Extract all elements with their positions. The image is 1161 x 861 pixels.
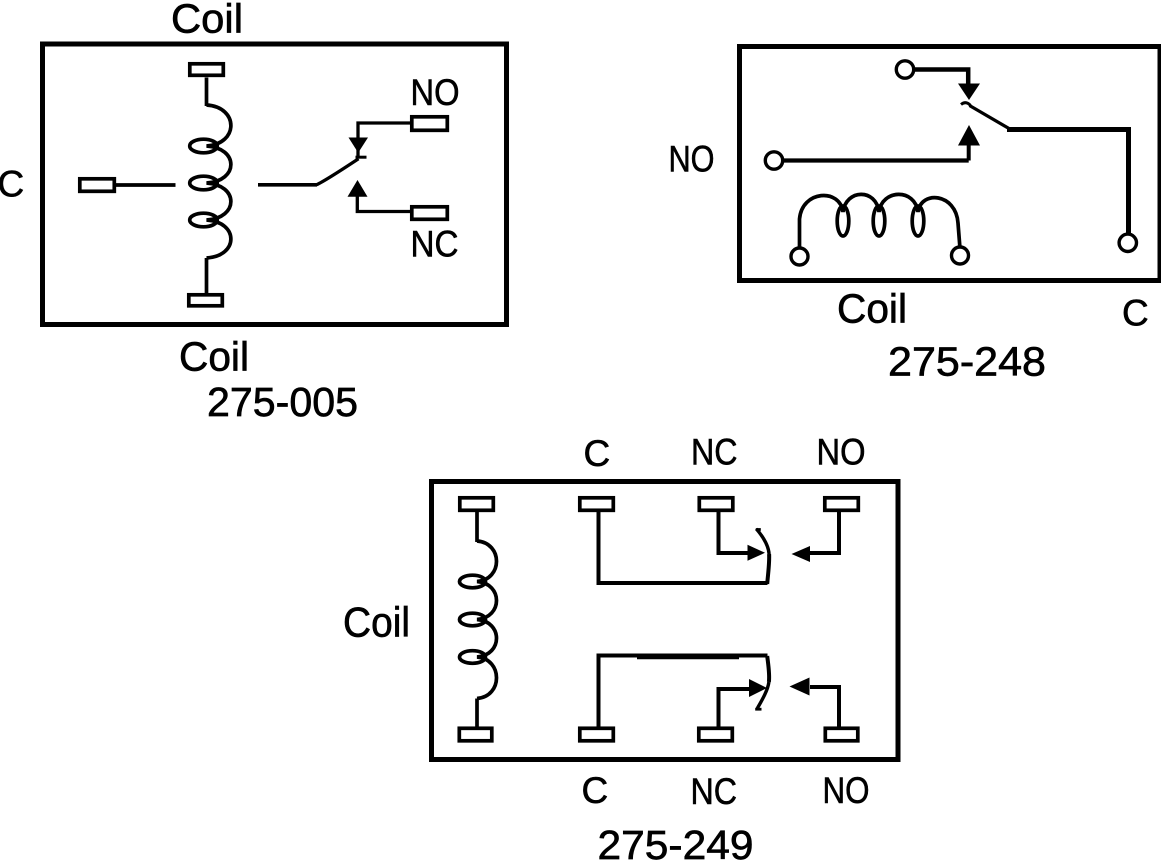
- terminal C top: [580, 498, 614, 511]
- svg-text:C: C: [0, 164, 24, 205]
- pin circle coil left: [791, 248, 808, 265]
- blade hook: [961, 103, 971, 106]
- svg-text:NC: NC: [691, 771, 738, 812]
- relay body box 275-005: [43, 44, 507, 325]
- pin circle coil right: [952, 247, 969, 264]
- NC contact arrow: [348, 180, 368, 197]
- NC contact arrow top (right): [748, 545, 766, 561]
- svg-text:NC: NC: [411, 224, 459, 265]
- coil crossover loop 2: [460, 613, 486, 626]
- coil L1 winding: [800, 194, 960, 247]
- svg-text:NO: NO: [823, 770, 870, 811]
- NO contact arrow bottom (left): [790, 678, 810, 696]
- wire NC contact: [357, 197, 411, 212]
- svg-text:NC: NC: [691, 432, 738, 473]
- svg-text:Coil: Coil: [171, 0, 243, 42]
- NO contact arrow: [349, 138, 369, 153]
- wire common left segment: [114, 183, 176, 187]
- svg-text:C: C: [582, 770, 609, 811]
- coil L1 winding: [477, 541, 497, 699]
- terminal C common: [80, 179, 115, 192]
- switch blade top pole: [756, 529, 769, 554]
- relay 275-249: [343, 432, 898, 861]
- blade tail tick bottom pole: [755, 708, 761, 711]
- relay 275-248: [669, 47, 1161, 385]
- terminal coil top: [190, 64, 224, 76]
- pin circle NC (top): [896, 61, 913, 78]
- wire blade to C pin: [1007, 130, 1129, 234]
- terminal NO: [412, 117, 448, 131]
- wire C bottom doubled segment: [637, 655, 739, 660]
- terminal coil top: [460, 498, 494, 511]
- pin circle C: [1119, 234, 1136, 251]
- blade tail tick top pole: [756, 528, 761, 531]
- svg-text:C: C: [1122, 293, 1149, 334]
- coil crossover loop 1: [837, 206, 849, 236]
- svg-text:275-249: 275-249: [598, 822, 754, 861]
- svg-text:275-248: 275-248: [888, 339, 1046, 385]
- wire coil bottom stub: [205, 258, 209, 295]
- wire NO arrow stub: [967, 144, 971, 161]
- terminal NC: [412, 207, 448, 220]
- terminal NO top: [825, 498, 859, 511]
- coil crossover loop 1: [190, 139, 218, 153]
- relay 275-005: [0, 0, 507, 425]
- coil crossover loop 3: [912, 206, 924, 236]
- NO contact arrow top (left): [792, 546, 811, 562]
- coil crossover loop 1: [460, 575, 486, 588]
- pin circle NO: [765, 152, 782, 169]
- NO contact arrow (up): [958, 125, 980, 146]
- terminal C bottom: [580, 728, 614, 741]
- wire NO contact: [358, 123, 411, 157]
- wire NC bottom: [719, 689, 750, 728]
- svg-text:Coil: Coil: [837, 286, 907, 332]
- relay body box 275-248: [740, 47, 1161, 281]
- wire coil bottom stub: [475, 699, 479, 730]
- coil L1 winding: [207, 105, 231, 258]
- switch blade: [317, 159, 359, 185]
- svg-text:275-005: 275-005: [207, 379, 358, 425]
- wire NC to contact: [914, 70, 968, 85]
- relay body box 275-249: [432, 482, 899, 760]
- terminal NC top: [699, 498, 733, 511]
- svg-text:NO: NO: [669, 139, 715, 180]
- terminal NC bottom: [699, 728, 733, 741]
- wire NO bottom: [810, 687, 839, 728]
- svg-text:NO: NO: [817, 432, 866, 473]
- svg-text:C: C: [584, 433, 611, 474]
- coil crossover loop 3: [190, 213, 218, 227]
- svg-text:Coil: Coil: [179, 334, 249, 380]
- wire NO top: [810, 511, 840, 553]
- NC contact arrow (down): [958, 84, 980, 101]
- wire blade riser bottom: [767, 656, 769, 682]
- terminal NO bottom: [825, 728, 858, 741]
- wire common right segment: [258, 183, 317, 187]
- terminal coil bottom: [189, 295, 223, 306]
- switch blade: [970, 106, 1010, 129]
- wire C top to blade pivot: [599, 511, 768, 583]
- wire coil top stub: [205, 78, 209, 107]
- wire blade riser top: [767, 554, 769, 584]
- svg-text:NO: NO: [411, 72, 460, 113]
- wire NC top: [719, 511, 749, 553]
- svg-text:Coil: Coil: [343, 599, 410, 646]
- coil crossover loop 2: [190, 176, 218, 190]
- NC contact arrow bottom (right): [749, 679, 767, 697]
- coil crossover loop 2: [873, 206, 885, 236]
- switch blade bottom pole: [757, 682, 769, 709]
- wire coil top stub: [475, 511, 479, 542]
- wire C bottom to blade pivot: [599, 656, 768, 729]
- coil crossover loop 3: [460, 651, 486, 664]
- wire NO horizontal: [783, 158, 969, 162]
- blade tip tick: [356, 156, 367, 159]
- terminal coil bottom: [459, 728, 492, 741]
